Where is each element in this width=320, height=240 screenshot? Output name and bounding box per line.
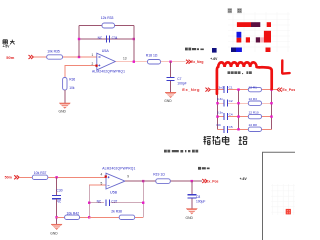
red square under blue [237, 38, 242, 43]
svg-text:GND: GND [50, 231, 58, 235]
wire pin2 to R36 branch [65, 66, 97, 78]
capacitor C8 [187, 195, 205, 204]
capacitor C5 [217, 123, 233, 133]
svg-text:ALM2402QPWPRQ1: ALM2402QPWPRQ1 [92, 70, 125, 74]
svg-text:10k R35: 10k R35 [47, 50, 60, 54]
svg-text:9: 9 [127, 175, 129, 179]
svg-text:22 R3: 22 R3 [249, 97, 258, 101]
svg-text:22 R8: 22 R8 [249, 123, 258, 127]
tiny annotation load (simulated) [198, 167, 210, 170]
junction output feedback tap [133, 61, 135, 63]
op-amp U5A plus mark pin2 [98, 64, 100, 66]
junction C8 tap [191, 180, 193, 182]
op-amp U5A minus mark pin1 [98, 56, 100, 58]
row 2 wires [218, 102, 225, 104]
port chevron Ex_Pos bottom [202, 179, 207, 183]
svg-text:100pF: 100pF [177, 81, 186, 85]
faint grid inside panel [271, 184, 295, 215]
junction R42/R38 node [88, 216, 90, 218]
svg-text:C2: C2 [229, 99, 233, 103]
svg-text:3.3n: 3.3n [217, 97, 223, 101]
resistor R3 [248, 97, 261, 106]
capacitor C7 [167, 77, 187, 85]
wire C8 vertical [191, 181, 193, 194]
pin4 red square [105, 175, 107, 177]
wire R18 to port [161, 61, 186, 63]
gray block 2 [237, 8, 242, 13]
op-amp U5B plus mark pin4 [108, 176, 110, 178]
wire middle bus [238, 90, 240, 130]
svg-text:10k: 10k [69, 86, 75, 90]
wire right bus [271, 90, 273, 130]
capacitor C37 [97, 199, 118, 206]
svg-text:10k R42: 10k R42 [67, 211, 80, 215]
row 3 wires [218, 116, 225, 118]
blue square row2 [237, 32, 242, 38]
svg-text:R19 1Ω: R19 1Ω [153, 172, 165, 176]
svg-text:2k R38: 2k R38 [111, 210, 122, 214]
wire C7 to gnd [170, 81, 172, 92]
junction C37 right [142, 202, 144, 204]
svg-text:50m: 50m [6, 55, 14, 60]
wire port to R37 [19, 176, 32, 178]
junction C34 left [78, 38, 80, 40]
svg-text:GND: GND [59, 110, 67, 114]
svg-text:+-5V: +-5V [3, 45, 11, 49]
svg-text:50m: 50m [5, 175, 12, 179]
svg-text:NC: NC [57, 200, 62, 204]
junction dots right bus [270, 88, 272, 90]
svg-text:3.3n: 3.3n [217, 111, 223, 115]
wire C37 row [89, 202, 143, 204]
wire port to left bus [211, 89, 218, 91]
wire C34 feedback branch [79, 38, 134, 40]
svg-text:1: 1 [92, 53, 94, 57]
wire R42 row [57, 216, 65, 218]
pink square row2 [260, 37, 264, 42]
svg-text:13: 13 [123, 56, 127, 60]
resistor R19 [153, 172, 170, 183]
wire C30 to gnd junction [56, 199, 58, 224]
svg-text:GND: GND [164, 99, 172, 103]
junction C7 tap [169, 61, 171, 63]
wire left bus [217, 90, 219, 130]
resistor R18 [146, 53, 161, 64]
wire feedback right vertical (bottom) [142, 181, 144, 217]
wire pin5 horizontal [89, 184, 106, 186]
wire R33 top feedback [79, 25, 134, 27]
small red square row2 [246, 37, 250, 42]
svg-text:R36: R36 [69, 78, 75, 82]
red marker square in panel [286, 209, 291, 215]
svg-text:Ex_Neg: Ex_Neg [191, 60, 203, 64]
junction R42 left [55, 216, 57, 218]
wire R36 to gnd [64, 90, 66, 103]
maroon square row2 [256, 37, 260, 42]
ground under R36 [59, 103, 71, 114]
row 1 wires [218, 89, 225, 91]
svg-text:NC: NC [98, 36, 103, 40]
faint grid top-right [228, 12, 290, 52]
annotation text 最大 (simulated strokes) [3, 40, 15, 45]
wire C30 vertical [56, 177, 58, 195]
svg-text:C37: C37 [111, 199, 117, 203]
wire C8 to gnd [191, 198, 193, 208]
svg-text:C1: C1 [229, 86, 233, 90]
capacitor C34 [98, 36, 118, 43]
svg-text:+-6V: +-6V [210, 57, 218, 61]
resistor R8 [248, 123, 261, 131]
tiny annotation mid (simulated) [228, 71, 252, 74]
junction C30 tap [55, 176, 57, 178]
svg-text:Ex_Neg: Ex_Neg [182, 87, 200, 92]
wire port to R35 [33, 56, 46, 58]
blue bar row3 [236, 48, 242, 53]
svg-text:NC: NC [217, 123, 222, 127]
red square row3 [266, 48, 271, 53]
wire feedback left vertical [78, 26, 80, 58]
resistor R10 [248, 111, 261, 119]
ground bottom-left [50, 224, 62, 235]
tiny annotation note (simulated) [164, 150, 198, 153]
wire R19 to port [170, 180, 202, 182]
navy bar row3 [231, 48, 236, 53]
svg-text:R18 1Ω: R18 1Ω [146, 53, 158, 57]
svg-text:5: 5 [101, 181, 103, 185]
junction input node [78, 56, 80, 58]
svg-text:C30: C30 [57, 189, 63, 193]
capacitor C4 [217, 111, 233, 121]
resistor R33 [101, 16, 115, 28]
wire U5A output [115, 61, 147, 63]
resistor R36 [63, 78, 76, 91]
resistor R1 [248, 86, 261, 92]
svg-text:Ex_Pos: Ex_Pos [206, 180, 218, 184]
wire feedback right vertical [133, 26, 135, 62]
pin2 red square [95, 65, 97, 67]
resistor R38 [111, 210, 143, 220]
junction dots left bus [216, 102, 218, 104]
row 4 wires [218, 128, 225, 130]
big red square row2 [264, 31, 271, 43]
svg-text:3n3: 3n3 [218, 86, 223, 90]
svg-text:NC: NC [97, 199, 102, 203]
svg-text:10k R37: 10k R37 [34, 171, 47, 175]
navy square isolated [212, 48, 217, 53]
svg-text:22 R1: 22 R1 [249, 86, 258, 90]
svg-text:Ex_Pos: Ex_Pos [282, 88, 295, 92]
capacitor C30 [52, 189, 63, 204]
svg-text:12k R33: 12k R33 [101, 16, 114, 20]
svg-text:C34: C34 [112, 36, 118, 40]
port chevron bottom input [14, 175, 19, 179]
junction dots middle bus [237, 88, 239, 90]
title resonant-circuit (simulated strokes) [203, 136, 247, 145]
port chevron ladder input [205, 88, 210, 92]
resistor R35 [47, 50, 97, 60]
hand-drawn letter L annotation [282, 60, 289, 73]
tiny annotation top (simulated) [185, 48, 204, 51]
ground under C7 [164, 92, 176, 103]
wire right bus to Ex_Pos port [272, 89, 277, 91]
resistor R42 [65, 211, 90, 219]
svg-text:22 R10: 22 R10 [249, 111, 259, 115]
op-amp U5B minus mark pin5 [108, 184, 110, 186]
svg-text:C4: C4 [229, 112, 233, 116]
junction C37 left [88, 202, 90, 204]
hand-drawn red coil (inductor annotation) [217, 62, 272, 93]
wire C7 vertical [170, 62, 172, 77]
junction C34 right [133, 38, 135, 40]
svg-text:GND: GND [186, 216, 194, 220]
gray block 1 [228, 8, 232, 13]
svg-text:4: 4 [101, 173, 103, 177]
svg-text:ALM2402QPWPRQ1: ALM2402QPWPRQ1 [102, 166, 135, 170]
port chevron input top [29, 55, 34, 59]
capacitor C1 [218, 86, 232, 94]
capacitor C2 [217, 97, 233, 107]
maroon bar row1 [251, 22, 260, 27]
svg-text:100µF: 100µF [196, 199, 205, 203]
svg-text:+-6V: +-6V [240, 177, 248, 181]
junction output tap bottom [142, 180, 144, 182]
svg-text:C5: C5 [229, 125, 233, 129]
op-amp U5B [102, 166, 135, 194]
wire inverting branch vertical [88, 185, 90, 217]
ground under C8 [186, 209, 198, 220]
red bar row1 [237, 22, 251, 27]
white panel bottom-right [263, 152, 296, 240]
resistor R37 [32, 171, 106, 180]
svg-text:U5A: U5A [102, 49, 110, 53]
wire R38 row [89, 216, 119, 218]
port chevron Ex_Neg out [186, 60, 191, 64]
wire U5B output [125, 180, 156, 182]
op-amp U5A [92, 49, 125, 73]
port chevron Ex_Pos (ladder out) [277, 88, 282, 92]
svg-text:U5B: U5B [110, 191, 118, 195]
red square row1 right [267, 22, 271, 27]
